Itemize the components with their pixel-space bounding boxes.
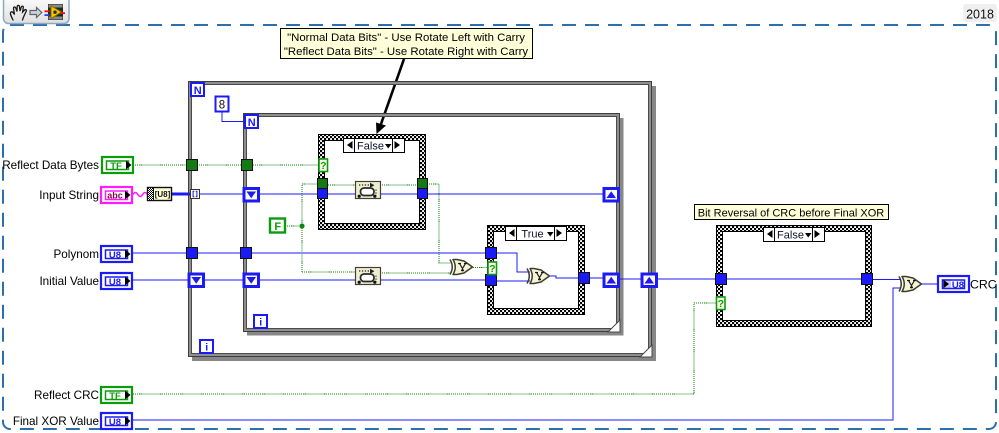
case structure 3 selector label: [764, 228, 825, 242]
toolbar: [4, 0, 70, 24]
wire: F constant to junction: [285, 225, 302, 227]
svg-text:?: ?: [320, 160, 326, 172]
svg-text:CRC: CRC: [970, 278, 997, 292]
wire: case1 to right shift register: [427, 193, 604, 195]
svg-text:Initial Value: Initial Value: [39, 275, 99, 288]
svg-text:Input String: Input String: [39, 189, 99, 202]
svg-text:TF: TF: [109, 391, 121, 402]
svg-text:"Normal Data Bits" - Use Rotat: "Normal Data Bits" - Use Rotate Left wit…: [287, 32, 525, 44]
svg-text:i: i: [205, 342, 208, 354]
control U8 Final XOR Value: [101, 413, 132, 429]
tunnel: boolean outer left: [187, 160, 198, 171]
wire: case3 interior pass-through: [725, 278, 863, 280]
svg-text:Reflect CRC: Reflect CRC: [34, 389, 99, 402]
wire: case2 to inner right SR: [589, 277, 604, 279]
for-loop outer border: [189, 82, 652, 357]
svg-text:i: i: [259, 317, 262, 329]
for-loop inner shadow: [247, 118, 624, 336]
svg-text:Polynom: Polynom: [54, 248, 99, 261]
svg-text:?: ?: [489, 263, 495, 275]
svg-text:U8: U8: [109, 277, 121, 288]
wire: Initial Value row: [133, 279, 189, 281]
svg-text:abc: abc: [107, 191, 123, 201]
svg-text:?: ?: [718, 298, 724, 310]
control TF Reflect Data Bytes: [102, 157, 133, 173]
tunnel: case2 bottom left: [486, 275, 497, 286]
terminal: outer loop N: [191, 83, 204, 97]
shift register: outer left (down): [189, 274, 204, 287]
comment box: rotate usage note: [281, 29, 533, 59]
case structure 3 (False) border: [717, 226, 872, 327]
gate: xor3: [899, 277, 922, 292]
tunnel: case3 left: [716, 274, 727, 285]
svg-text:U8: U8: [109, 417, 121, 428]
shift register: inner right row I (up): [604, 274, 619, 287]
wire: input string pink: [133, 193, 147, 197]
control TF Reflect CRC: [101, 387, 132, 403]
gate: xor2: [527, 269, 550, 284]
annotation arrow: [376, 59, 404, 134]
case structure 1 (False) border: [319, 135, 426, 230]
svg-text:F: F: [274, 221, 281, 233]
junction dot on carry wire: [299, 223, 304, 228]
function: string to byte array: [148, 188, 172, 201]
svg-text:"Reflect Data Bits" - Use Rota: "Reflect Data Bits" - Use Rotate Right w…: [284, 46, 529, 58]
shift register: inner left row S (down): [244, 189, 259, 202]
svg-text:U8: U8: [109, 250, 121, 261]
tunnel: case2 top left: [486, 248, 497, 259]
wire: case2 interior bottom branch: [496, 280, 530, 282]
wire: case1 interior blue: [326, 193, 419, 195]
constant F: [270, 219, 285, 234]
for-loop outer resize notch: [640, 345, 652, 357]
selector terminal case1: [319, 159, 328, 172]
comment box: bit reversal note: [695, 205, 889, 220]
tunnel: case1 blue left: [318, 189, 328, 199]
svg-text:False: False: [357, 141, 384, 153]
selector terminal case2: [488, 262, 497, 275]
constant 8: [216, 97, 246, 122]
tunnel: polynom inner: [241, 248, 252, 259]
wire: rotate2 carry-out to xor1: [380, 272, 452, 274]
svg-text:TF: TF: [110, 161, 122, 172]
wire: carry-in to rotate2: [302, 271, 356, 273]
svg-text:Reflect Data Bytes: Reflect Data Bytes: [2, 159, 99, 172]
tunnel: case3 right: [862, 274, 873, 285]
toolbar run arrow icon: [30, 8, 42, 18]
terminal: inner loop N: [245, 115, 258, 129]
indicator U8 CRC: [938, 276, 969, 292]
tunnel: case1 green right: [418, 179, 428, 189]
wire: byte array to tunnel: [171, 193, 191, 196]
wire: inner SR to outer SR: [618, 278, 642, 280]
svg-text:N: N: [248, 117, 256, 129]
svg-text:8: 8: [219, 100, 225, 112]
tunnel: case1 green left: [318, 179, 328, 189]
wire: case2 interior top branch: [496, 253, 530, 272]
wire: case1 interior carry green left: [326, 184, 356, 186]
svg-text:2018: 2018: [966, 8, 994, 22]
svg-text:N: N: [194, 85, 202, 97]
wire: outer SR to case3: [655, 278, 716, 280]
wire: case1 carry-out to xor1: [427, 184, 452, 263]
function: rotate right with carry: [356, 268, 381, 285]
wire: shift reg to case1: [258, 193, 318, 195]
wire: xor1 out to case2 selector: [473, 267, 488, 269]
2018 version tag: [963, 4, 997, 22]
gate: xor1 boolean: [450, 260, 473, 275]
control U8 Initial Value: [101, 273, 132, 289]
case structure 2 (True) border: [488, 226, 585, 315]
wire: Polynom row: [133, 252, 186, 254]
wire: case1 interior carry green right: [380, 184, 419, 186]
for-loop outer shadow: [192, 86, 656, 361]
wire: Final XOR Value run: [133, 288, 901, 420]
case structure 2 selector label: [506, 227, 567, 241]
case structure 1 selector label: [344, 139, 405, 153]
control U8 Polynom: [101, 246, 132, 262]
control abc Input String: [101, 187, 132, 203]
terminal: inner loop i: [254, 315, 267, 329]
wire: xor3 to CRC indicator: [922, 283, 938, 285]
terminal: outer loop i: [200, 340, 213, 354]
selector terminal case3: [717, 297, 726, 310]
tunnel: polynom outer: [187, 248, 198, 259]
tunnel: auto-index byte array: [191, 190, 200, 199]
for-loop inner resize notch: [608, 320, 620, 332]
tunnel: boolean inner left: [242, 160, 253, 171]
svg-text:U8: U8: [952, 280, 964, 291]
shift register: outer right (up): [642, 274, 657, 287]
shift register: inner right row S (up): [604, 189, 619, 202]
tunnel: case1 blue right: [418, 189, 428, 199]
shift register: inner left row I (down): [244, 274, 259, 287]
for-loop inner border: [244, 114, 620, 332]
wire: xor2 out to tunnel: [550, 276, 579, 278]
svg-text:False: False: [777, 230, 804, 242]
toolbar VI icon: [45, 4, 66, 20]
wire: byte element to shift register: [199, 193, 244, 195]
svg-text:True: True: [521, 229, 543, 241]
tunnel: case2 right: [579, 273, 590, 284]
wire: Reflect CRC boolean run: [133, 303, 717, 394]
svg-text:[U8]: [U8]: [155, 190, 171, 199]
wire: carry-in vertical: [302, 184, 317, 272]
function: rotate left with carry: [356, 182, 381, 199]
toolbar hand icon: [10, 5, 26, 20]
wire: case3 to xor3: [872, 279, 901, 281]
wire: Reflect Data Bytes boolean row: [133, 164, 188, 166]
svg-text:Bit Reversal of CRC before Fin: Bit Reversal of CRC before Final XOR: [698, 208, 885, 220]
svg-text:Final XOR Value: Final XOR Value: [13, 415, 99, 428]
